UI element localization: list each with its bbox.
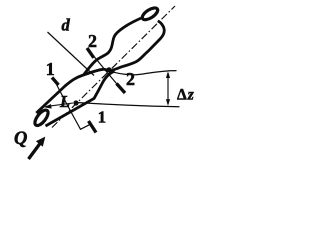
section line 2-2 [90, 51, 122, 90]
svg-text:Δz: Δz [177, 87, 194, 104]
wire: pipe upper-left wall becoming outlet lower wall [36, 21, 164, 113]
svg-text:2: 2 [126, 69, 135, 89]
outlet rim [140, 6, 159, 22]
centerline dash-dot [52, 6, 175, 128]
tick 1 lower [89, 121, 97, 133]
L dimension arrow [46, 103, 73, 107]
tick 1 upper [52, 78, 59, 86]
section line 1-1 [55, 81, 91, 130]
svg-text:1: 1 [46, 59, 55, 79]
level line from node 2 [110, 71, 177, 75]
delta-z double arrow [167, 73, 169, 104]
svg-text:Q: Q [14, 129, 27, 149]
svg-text:L: L [59, 92, 70, 111]
wire: outlet tube upper wall [84, 18, 143, 76]
Q flow arrow [29, 142, 42, 160]
d leader line [48, 32, 95, 76]
node dot 1 [73, 100, 78, 105]
svg-text:d: d [62, 16, 71, 35]
tick 2 upper [87, 48, 94, 58]
tick 2 lower [117, 84, 126, 94]
svg-text:1: 1 [98, 108, 106, 127]
svg-text:2: 2 [88, 31, 97, 51]
inlet rim [33, 108, 51, 128]
node dot 2 [106, 67, 111, 72]
wire: pipe lower-right wall of wide section [46, 71, 115, 126]
level line from node 1 [79, 103, 180, 107]
